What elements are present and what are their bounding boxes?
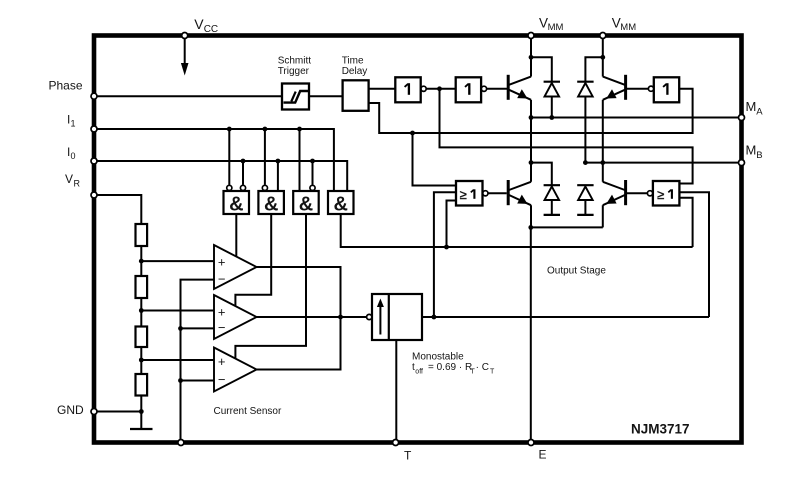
- wire tap2 to op-amp A2 plus: [141, 310, 214, 312]
- wire U10 output to Q4 base: [627, 192, 647, 194]
- wire op-amp A2 output to monostable: [257, 316, 367, 318]
- svg-text:Delay: Delay: [342, 66, 368, 77]
- monostable U8: [367, 294, 422, 340]
- VMM terminal 1: [528, 33, 534, 39]
- label MB: [746, 143, 763, 162]
- wire op-amp A2 minus branch: [181, 327, 215, 329]
- svg-text:M: M: [746, 99, 757, 114]
- op-amp A2: [214, 295, 257, 339]
- node ladder tap 1: [139, 259, 144, 264]
- resistor R1: [136, 224, 148, 246]
- wire gate U4 input 2: [277, 161, 279, 191]
- resistor R2: [136, 276, 148, 298]
- wire I0 line: [96, 161, 347, 191]
- wire monostable to T pin: [395, 340, 397, 440]
- wire U11 output to Q2 base: [627, 88, 648, 90]
- svg-text:Monostable: Monostable: [412, 352, 464, 363]
- svg-text:GND: GND: [57, 403, 84, 417]
- svg-text:&: &: [299, 194, 313, 216]
- VMM terminal 2: [600, 33, 606, 39]
- wire GND: [96, 411, 141, 413]
- label VCC: [194, 16, 218, 35]
- schmitt trigger U1: [282, 84, 309, 110]
- diode D1: [544, 82, 560, 118]
- wire I1 line: [96, 129, 334, 191]
- svg-text:≥: ≥: [460, 187, 467, 202]
- wire phase tap to OR gate U7: [413, 133, 457, 186]
- svg-text:Current Sensor: Current Sensor: [214, 406, 282, 417]
- node I0 junction dots: [241, 159, 246, 164]
- wire emitter rail to E pin: [531, 226, 603, 228]
- wire VMM2 feed: [602, 39, 604, 77]
- wire op-amp A3 minus branch: [181, 380, 215, 382]
- wire VCC arrow: [184, 39, 186, 65]
- wire tap3 to op-amp A3 plus: [141, 359, 214, 361]
- svg-text:T: T: [404, 449, 412, 463]
- svg-text:V: V: [194, 16, 204, 32]
- svg-text:Output Stage: Output Stage: [547, 266, 606, 277]
- ground: [130, 428, 153, 430]
- E terminal: [528, 440, 534, 446]
- svg-text:≥: ≥: [657, 187, 664, 202]
- Phase terminal: [91, 93, 97, 99]
- wire MA line: [531, 117, 742, 119]
- node inverted phase junction: [437, 86, 442, 91]
- wire inverted phase to OR gate U10: [440, 89, 693, 184]
- wire Phase line: [96, 95, 282, 97]
- AND gate U4: [258, 191, 284, 216]
- wire gate U6 output inhibit line: [341, 214, 693, 247]
- wire U9b to Q1 base: [487, 88, 507, 90]
- svg-text:V: V: [65, 172, 73, 186]
- svg-text:&: &: [229, 194, 243, 216]
- node phase line tap: [410, 131, 415, 136]
- label toff formula: [412, 362, 495, 376]
- svg-text:· C: · C: [476, 362, 489, 373]
- label VR: [65, 172, 81, 189]
- time delay U2: [343, 80, 369, 111]
- svg-text:+: +: [218, 354, 226, 369]
- wire op-amp output bus: [257, 267, 341, 370]
- node sense bus junction A3: [178, 378, 183, 383]
- wire gate U4 output to comparator DAC: [235, 214, 271, 307]
- wire monostable output line: [422, 316, 709, 318]
- diode D3: [544, 185, 560, 215]
- wire gate U3 input 2 inverted: [242, 161, 244, 185]
- node ladder tap 3: [139, 358, 144, 363]
- OR gate U7: [456, 181, 488, 206]
- wire gate U3 input 1 inverted: [228, 129, 230, 185]
- IC outline box: [94, 36, 742, 443]
- svg-text:+: +: [218, 255, 226, 270]
- wire U9a to U9b: [427, 88, 456, 90]
- svg-text:A: A: [756, 107, 763, 118]
- wire schmitt to time delay: [309, 95, 343, 97]
- wire gate U3 output to comparator DAC: [235, 214, 237, 258]
- label VMM 2: [612, 15, 637, 33]
- svg-text:T: T: [490, 369, 495, 376]
- label I0: [67, 145, 76, 161]
- svg-text:Phase: Phase: [48, 79, 82, 93]
- wire tap1 to op-amp A1 plus: [141, 260, 214, 262]
- T terminal: [393, 440, 399, 446]
- AND gate U5: [293, 191, 319, 216]
- wire U7 output to Q3 base: [488, 192, 506, 194]
- MA terminal: [739, 115, 745, 121]
- transistor Q3: [508, 180, 531, 227]
- node ladder tap 2: [139, 308, 144, 313]
- wire gate U5 input 2 inverted: [312, 161, 314, 185]
- I0 terminal: [91, 158, 97, 164]
- wire time delay lower output phase line: [369, 89, 693, 133]
- node I1 junction dots: [227, 127, 232, 132]
- svg-text:R: R: [74, 179, 81, 189]
- AND gate U6: [328, 191, 354, 216]
- transistor Q4: [603, 180, 626, 227]
- svg-text:Trigger: Trigger: [278, 66, 310, 77]
- node sense bus junction A2: [178, 326, 183, 331]
- GND terminal: [91, 409, 97, 415]
- diode D2: [577, 82, 593, 163]
- resistor R3: [136, 327, 148, 348]
- svg-text:MM: MM: [620, 22, 636, 33]
- wire MB line: [585, 162, 741, 164]
- node inhibit junction: [444, 245, 449, 250]
- wire inhibit to U7: [447, 201, 457, 248]
- MB terminal: [739, 160, 745, 166]
- svg-text:CC: CC: [204, 24, 218, 35]
- label VMM 1: [539, 15, 564, 33]
- transistor Q2: [603, 75, 626, 163]
- svg-text:−: −: [218, 372, 226, 387]
- svg-text:&: &: [264, 194, 278, 216]
- AND gate U3: [224, 191, 250, 216]
- node ladder GND junction: [139, 409, 144, 414]
- label Time Delay: [342, 56, 368, 78]
- node output bus junction: [338, 315, 343, 320]
- op-amp A3: [214, 348, 257, 392]
- I1 terminal: [91, 126, 97, 132]
- wire sense bus (minus inputs to E sense pin): [181, 280, 215, 443]
- svg-text:Schmitt: Schmitt: [278, 56, 312, 67]
- wire gate U4 input 1 inverted: [264, 129, 266, 185]
- wire inhibit to U10: [679, 198, 692, 247]
- svg-text:NJM3717: NJM3717: [631, 422, 690, 437]
- wire VR to resistor ladder: [96, 195, 141, 224]
- wire VMM1 feed: [530, 39, 532, 77]
- svg-text:−: −: [218, 271, 226, 286]
- svg-text:&: &: [333, 194, 347, 216]
- wire gate U5 input 1: [299, 129, 301, 191]
- svg-text:0: 0: [71, 151, 76, 161]
- node MA diode jog: [529, 160, 534, 165]
- resistor R4: [136, 374, 148, 396]
- wire Q4 collector: [602, 163, 604, 182]
- svg-text:−: −: [218, 320, 226, 335]
- svg-text:E: E: [539, 448, 547, 462]
- diode D4: [577, 185, 593, 215]
- sense terminal: [178, 440, 184, 446]
- VCC terminal: [182, 33, 188, 39]
- wire MA net down to Q3: [530, 118, 532, 182]
- wire gate U5 output to comparator DAC: [235, 214, 306, 358]
- label I1: [67, 113, 76, 129]
- svg-text:Time: Time: [342, 56, 364, 67]
- buffer U11: [648, 77, 679, 102]
- svg-text:+: +: [218, 304, 226, 319]
- wire resistor ladder segments: [140, 246, 142, 276]
- svg-text:M: M: [746, 143, 757, 158]
- svg-text:off: off: [415, 369, 423, 376]
- transistor Q1: [508, 75, 531, 118]
- OR gate U10: [647, 181, 679, 206]
- op-amp A1: [214, 245, 257, 289]
- buffer U9b: [456, 77, 487, 102]
- label Schmitt Trigger: [278, 56, 312, 78]
- buffer U9a: [395, 77, 426, 102]
- svg-text:1: 1: [71, 119, 76, 129]
- wire time delay upper output: [369, 88, 396, 90]
- label MA: [746, 99, 764, 118]
- wire monostable to OR gate U10: [679, 192, 709, 317]
- wire monostable to OR gate U7: [434, 192, 456, 317]
- VR terminal: [91, 192, 97, 198]
- svg-text:B: B: [756, 150, 762, 161]
- node monostable output junction: [432, 315, 437, 320]
- svg-text:MM: MM: [548, 22, 564, 33]
- svg-text:= 0.69 · R: = 0.69 · R: [428, 362, 472, 373]
